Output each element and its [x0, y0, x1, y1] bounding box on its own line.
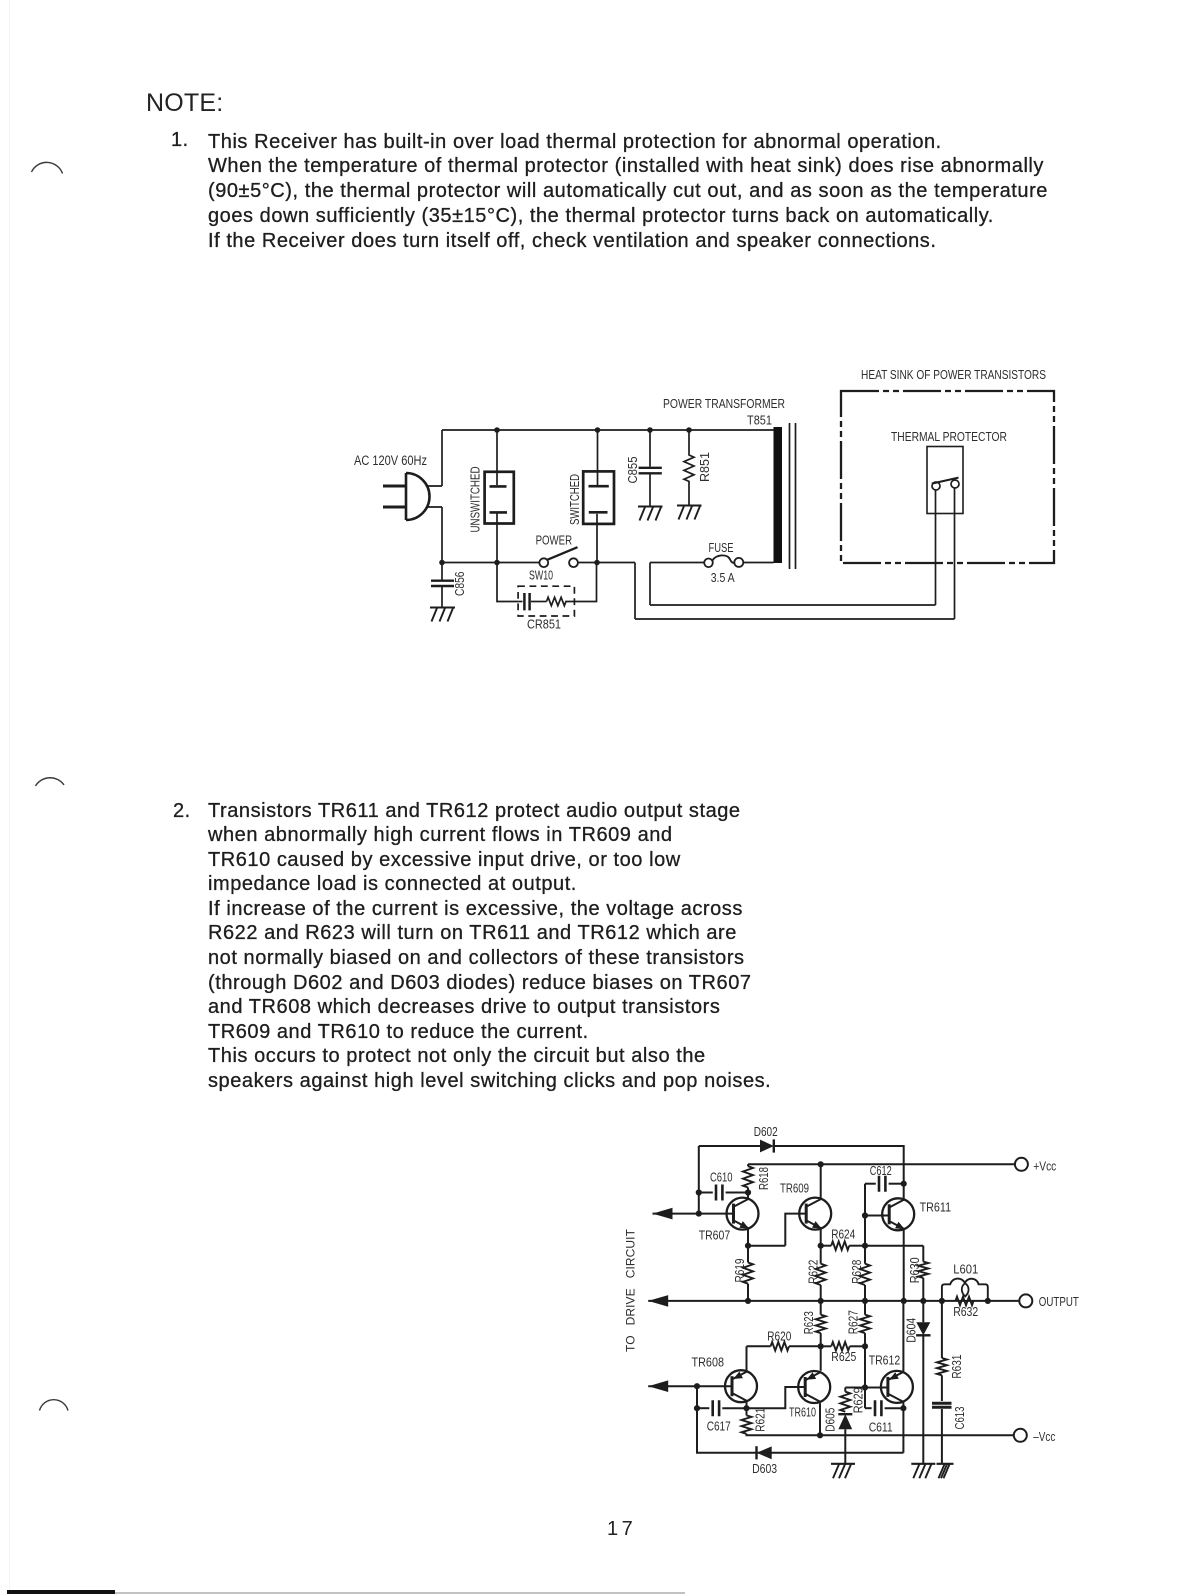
transformer core lines: [790, 423, 796, 569]
wire D603 line: [697, 1408, 903, 1453]
svg-text:TO DRIVE CIRCUIT: TO DRIVE CIRCUIT: [624, 1228, 638, 1352]
wire D602 left leg vertical: [698, 1146, 700, 1214]
CR851 dashed box: [518, 586, 574, 616]
diode D603: [757, 1446, 772, 1459]
wire TR607 base wire: [653, 1213, 734, 1215]
svg-text:R619: R619: [732, 1259, 747, 1283]
capacitor C855: [649, 430, 651, 467]
node C612 right junction: [901, 1181, 907, 1187]
wire C612 left leg vertical: [864, 1184, 866, 1216]
wire fuse return vertical: [649, 563, 651, 606]
wire protector left horizontal: [650, 604, 936, 606]
wire protector left pin: [935, 490, 937, 605]
wire R619 top lead: [747, 1246, 749, 1263]
wire R623 top lead: [820, 1301, 822, 1315]
svg-text:+Vcc: +Vcc: [1033, 1158, 1056, 1173]
node bottom rail / unswitched: [494, 560, 500, 566]
wire C612 left lead: [865, 1183, 876, 1185]
wire emitter-to-base link horizontal: [748, 1245, 785, 1247]
node R628/output: [862, 1298, 868, 1304]
capacitor C617: [713, 1400, 719, 1416]
heat sink dash-dot boundary: [841, 391, 1054, 563]
bottom gray strip: [115, 1592, 685, 1594]
svg-text:TR611: TR611: [920, 1200, 952, 1215]
capacitor C613: [932, 1403, 952, 1407]
svg-text:C617: C617: [707, 1418, 731, 1433]
node top rail / switched: [595, 427, 601, 433]
node TR607 base junction: [696, 1211, 702, 1217]
node top rail / C855: [647, 427, 653, 433]
svg-text:SWITCHED: SWITCHED: [567, 474, 582, 525]
ground (C613): [937, 1463, 954, 1465]
arrow to drive circuit (upper): [653, 1208, 673, 1220]
node R619/output: [745, 1298, 751, 1304]
wire emitter-to-base link vertical: [785, 1214, 806, 1246]
transistor TR610: [798, 1371, 830, 1403]
resistor R625: [831, 1342, 849, 1351]
wire R618 top lead: [747, 1164, 749, 1166]
node R630-D604/output: [920, 1298, 926, 1304]
wire TR612 collector lead: [902, 1402, 904, 1452]
wire TR611 base wire: [865, 1215, 889, 1217]
wire R631 top lead: [941, 1301, 943, 1358]
svg-text:TR610: TR610: [789, 1404, 816, 1419]
svg-text:R622: R622: [806, 1260, 821, 1284]
wire unswitched top: [496, 430, 498, 485]
wire plug to vertical: [427, 486, 442, 507]
svg-text:CR851: CR851: [527, 617, 561, 632]
resistor R851: [684, 430, 694, 505]
wire R627 junction down to TR612 base row: [864, 1346, 866, 1387]
resistor R632: [956, 1297, 974, 1306]
wire TR611 emitter lead: [903, 1229, 905, 1301]
wire output line: [648, 1300, 1019, 1302]
node R622/output: [818, 1298, 824, 1304]
punch hole 2: [0, 740, 130, 830]
fuse F1: [704, 559, 713, 568]
node TR608 base / C617 junction: [694, 1383, 700, 1389]
terminal -Vcc: [1014, 1429, 1027, 1442]
wire C613 bottom lead to ground: [941, 1409, 943, 1464]
svg-text:R623: R623: [801, 1311, 816, 1334]
svg-text:R631: R631: [949, 1355, 964, 1379]
wire TR607 emitter lead: [747, 1229, 749, 1246]
wire R625 left lead: [821, 1345, 832, 1347]
ground for C856: [430, 608, 455, 622]
resistor R620: [771, 1342, 789, 1351]
transistor TR609: [799, 1198, 831, 1230]
wire C610 left lead: [699, 1192, 713, 1194]
svg-text:R618: R618: [756, 1167, 771, 1190]
svg-text:R628: R628: [849, 1260, 864, 1284]
svg-text:POWER: POWER: [536, 533, 573, 548]
node L601 right/output: [985, 1298, 991, 1304]
wire R628 bottom lead: [864, 1285, 866, 1301]
svg-text:D604: D604: [903, 1318, 918, 1343]
wire TR612 emitter lead: [902, 1301, 904, 1372]
node L601 left/output: [939, 1298, 945, 1304]
svg-text:D602: D602: [754, 1124, 778, 1139]
node TR609 collector junction: [818, 1161, 824, 1167]
arrow to drive circuit (lower): [648, 1380, 668, 1392]
transformer T851 primary bar: [774, 427, 783, 563]
wire R620 left lead: [747, 1345, 771, 1347]
wire bottom rail: [442, 562, 635, 564]
wire C611 left lead: [865, 1407, 872, 1409]
ground (D605): [831, 1463, 855, 1465]
node R624 / R628 junction: [862, 1243, 868, 1249]
wire protector right pin: [954, 488, 956, 619]
wire top rail: [442, 429, 774, 431]
wire TR612 base wire: [845, 1387, 888, 1389]
wire D602 anode line: [699, 1145, 760, 1147]
svg-text:R624: R624: [831, 1227, 855, 1242]
wire R622 top lead: [820, 1246, 822, 1264]
resistor R621: [742, 1415, 752, 1433]
transistor TR612: [881, 1371, 913, 1403]
switch SW10: [539, 558, 548, 567]
wire TR608 collector lead: [746, 1402, 748, 1408]
ground (D604): [911, 1463, 935, 1465]
wire R620 right lead: [789, 1345, 821, 1347]
wire R628 top lead: [864, 1246, 866, 1264]
resistor R618: [743, 1166, 753, 1187]
svg-text:D605: D605: [823, 1408, 838, 1432]
wire TR608 base wire: [648, 1385, 732, 1387]
resistor R623: [816, 1315, 826, 1333]
svg-text:R620: R620: [767, 1329, 791, 1344]
wire CR851 right leg: [575, 563, 597, 602]
capacitor C611: [875, 1400, 881, 1416]
node TR612 base junction: [862, 1384, 868, 1390]
diode D605: [838, 1414, 852, 1429]
wire switched top: [597, 430, 599, 485]
wire CR851 left leg: [497, 563, 518, 602]
wire C617 junction link to TR610 base: [747, 1387, 806, 1408]
wire C612 right lead: [889, 1183, 904, 1185]
wire TR610 collector lead: [819, 1403, 821, 1435]
node TR610 collector / -Vcc junction: [817, 1432, 823, 1438]
resistor of CR851: [547, 597, 575, 605]
wire fuse line: [650, 562, 774, 564]
paragraph 2: [208, 799, 771, 1094]
svg-text:TR612: TR612: [869, 1352, 901, 1367]
resistor R619: [743, 1263, 753, 1284]
wire +Vcc rail: [748, 1163, 1015, 1165]
punch hole 3: [0, 1380, 130, 1490]
svg-text:C613: C613: [952, 1407, 967, 1430]
bottom left black bar: [7, 1590, 115, 1594]
wire C611 riser from TR612 base junction: [864, 1388, 866, 1409]
svg-text:–Vcc: –Vcc: [1033, 1429, 1055, 1444]
wire C611 right lead: [885, 1407, 904, 1409]
wire D605 anode lead to ground: [844, 1429, 846, 1464]
wire R630 bottom lead: [922, 1278, 924, 1301]
resistor R622: [816, 1264, 826, 1285]
svg-text:R627: R627: [845, 1310, 860, 1334]
node bottom rail / switched: [594, 560, 600, 566]
wire R627 bottom lead: [864, 1333, 866, 1346]
thermal protector box: [927, 447, 963, 514]
svg-text:R625: R625: [831, 1349, 856, 1364]
svg-text:C612: C612: [870, 1163, 892, 1178]
ground for C855: [638, 507, 663, 521]
diode D604: [916, 1322, 930, 1335]
transistor TR611: [882, 1198, 914, 1230]
wire R619 bottom lead: [747, 1284, 749, 1301]
svg-text:HEAT SINK OF POWER TRANSISTORS: HEAT SINK OF POWER TRANSISTORS: [861, 368, 1046, 382]
resistor R630: [918, 1262, 928, 1278]
node C610 left junction: [696, 1189, 702, 1195]
thermal protector contacts: [932, 482, 940, 490]
wire TR611 collector lead: [903, 1184, 905, 1200]
wire rail to fuse corner: [634, 563, 636, 620]
svg-text:TR609: TR609: [780, 1180, 809, 1195]
wire TR608 emitter up lead: [746, 1346, 748, 1371]
wire R621 top lead: [746, 1408, 748, 1415]
svg-text:TR607: TR607: [699, 1228, 731, 1243]
node top rail / unswitched: [494, 427, 500, 433]
node TR607 emitter junction: [745, 1243, 751, 1249]
svg-text:SW10: SW10: [529, 568, 553, 583]
wire R627 top lead: [864, 1301, 866, 1315]
inductor L601: [942, 1279, 988, 1301]
wire R623 bottom lead: [820, 1333, 822, 1346]
wire D604 cathode lead to ground: [922, 1335, 924, 1464]
diode D602: [760, 1139, 774, 1152]
transistor TR608: [725, 1370, 757, 1402]
list number 1.: [171, 128, 189, 153]
svg-text:R629: R629: [851, 1387, 866, 1413]
arrow to drive circuit (output row): [648, 1295, 668, 1307]
faint left page edge line: [9, 0, 10, 1594]
wire R618 bottom lead / TR607 collector: [747, 1188, 749, 1199]
wire protector right horizontal: [635, 618, 955, 620]
wire C617 left lead: [697, 1407, 709, 1409]
switched outlet: [583, 471, 614, 524]
node C617 left junction: [694, 1405, 700, 1411]
node TR607 collector / C610: [745, 1189, 751, 1195]
wire R624 right lead: [849, 1245, 865, 1247]
wire TR609 emitter lead: [820, 1229, 822, 1246]
resistor R631: [937, 1358, 947, 1375]
unswitched outlet: [485, 472, 514, 524]
svg-text:C855: C855: [626, 456, 640, 483]
wire plug vertical top: [441, 430, 443, 486]
node C611 / TR612 collector junction: [900, 1405, 906, 1411]
svg-text:AC 120V 60Hz: AC 120V 60Hz: [354, 453, 427, 468]
svg-text:L601: L601: [953, 1261, 978, 1276]
svg-text:R621: R621: [753, 1408, 768, 1432]
wire R631 bottom lead: [941, 1375, 943, 1401]
svg-text:D603: D603: [752, 1461, 777, 1476]
capacitor C612: [879, 1176, 885, 1192]
schematic 2: output protection circuit: [615, 1120, 1090, 1500]
wire TR611 vertical down to R628: [864, 1216, 866, 1246]
wire R622 bottom lead: [820, 1285, 822, 1301]
svg-text:C856: C856: [453, 571, 467, 596]
wire R625 right lead: [850, 1345, 865, 1347]
resistor R628: [860, 1264, 870, 1285]
node TR611 emitter/output: [901, 1298, 907, 1304]
wire C617 left leg: [696, 1386, 698, 1408]
svg-text:OUTPUT: OUTPUT: [1039, 1294, 1079, 1309]
node TR608 collector / C617 / R621 junction: [743, 1405, 749, 1411]
svg-text:UNSWITCHED: UNSWITCHED: [468, 467, 483, 533]
terminal OUTPUT: [1019, 1294, 1032, 1307]
resistor R629: [840, 1392, 850, 1412]
node TR611 base junction: [862, 1212, 868, 1218]
node top rail / R851: [686, 427, 692, 433]
heading NOTE:: [146, 88, 223, 118]
svg-text:TR608: TR608: [692, 1355, 725, 1370]
ground for R851: [677, 506, 702, 520]
capacitor of CR851: [518, 601, 522, 603]
svg-text:POWER TRANSFORMER: POWER TRANSFORMER: [663, 396, 785, 411]
wire D604 anode lead: [922, 1301, 924, 1322]
wire R624 left lead: [821, 1245, 832, 1247]
node R625/R627 junction: [862, 1343, 868, 1349]
wire plug vertical bottom: [441, 507, 443, 563]
wire TR609 collector lead: [820, 1164, 822, 1198]
page number 17: [607, 1518, 636, 1541]
list number 2.: [173, 799, 191, 824]
node TR609 emitter junction: [818, 1243, 824, 1249]
capacitor C610: [716, 1185, 722, 1201]
paragraph 1: [208, 130, 1048, 254]
svg-text:THERMAL PROTECTOR: THERMAL PROTECTOR: [891, 430, 1007, 444]
node bottom rail / plug: [439, 560, 445, 566]
resistor R624: [831, 1241, 849, 1250]
terminal +Vcc: [1015, 1158, 1028, 1171]
wire R624 junction to R630 corner: [865, 1245, 923, 1247]
wire R629 top corner: [844, 1388, 846, 1392]
wire D602 cathode line to corner: [774, 1146, 904, 1184]
svg-text:FUSE: FUSE: [709, 540, 734, 555]
capacitor C856: [441, 563, 443, 580]
schematic 1: power supply / thermal protector: [330, 360, 1070, 640]
AC plug P1: [383, 486, 407, 507]
svg-text:C610: C610: [710, 1170, 733, 1185]
wire -Vcc line: [747, 1434, 1014, 1436]
transistor TR607: [727, 1198, 759, 1230]
svg-text:T851: T851: [747, 413, 772, 428]
wire C610 right lead: [726, 1192, 748, 1194]
resistor R627: [860, 1315, 870, 1333]
wire C617 right lead: [722, 1407, 746, 1409]
svg-text:3.5 A: 3.5 A: [711, 570, 735, 585]
wire switched bottom: [596, 514, 598, 563]
node R620/R625/R623 junction: [818, 1343, 824, 1349]
wire R630 top corner: [922, 1246, 924, 1262]
wire TR610 emitter lead from junction: [820, 1346, 822, 1371]
svg-text:R851: R851: [698, 452, 712, 482]
wire unswitched bottom: [496, 514, 498, 563]
svg-text:C611: C611: [869, 1419, 893, 1434]
punch hole 1: [0, 0, 130, 220]
